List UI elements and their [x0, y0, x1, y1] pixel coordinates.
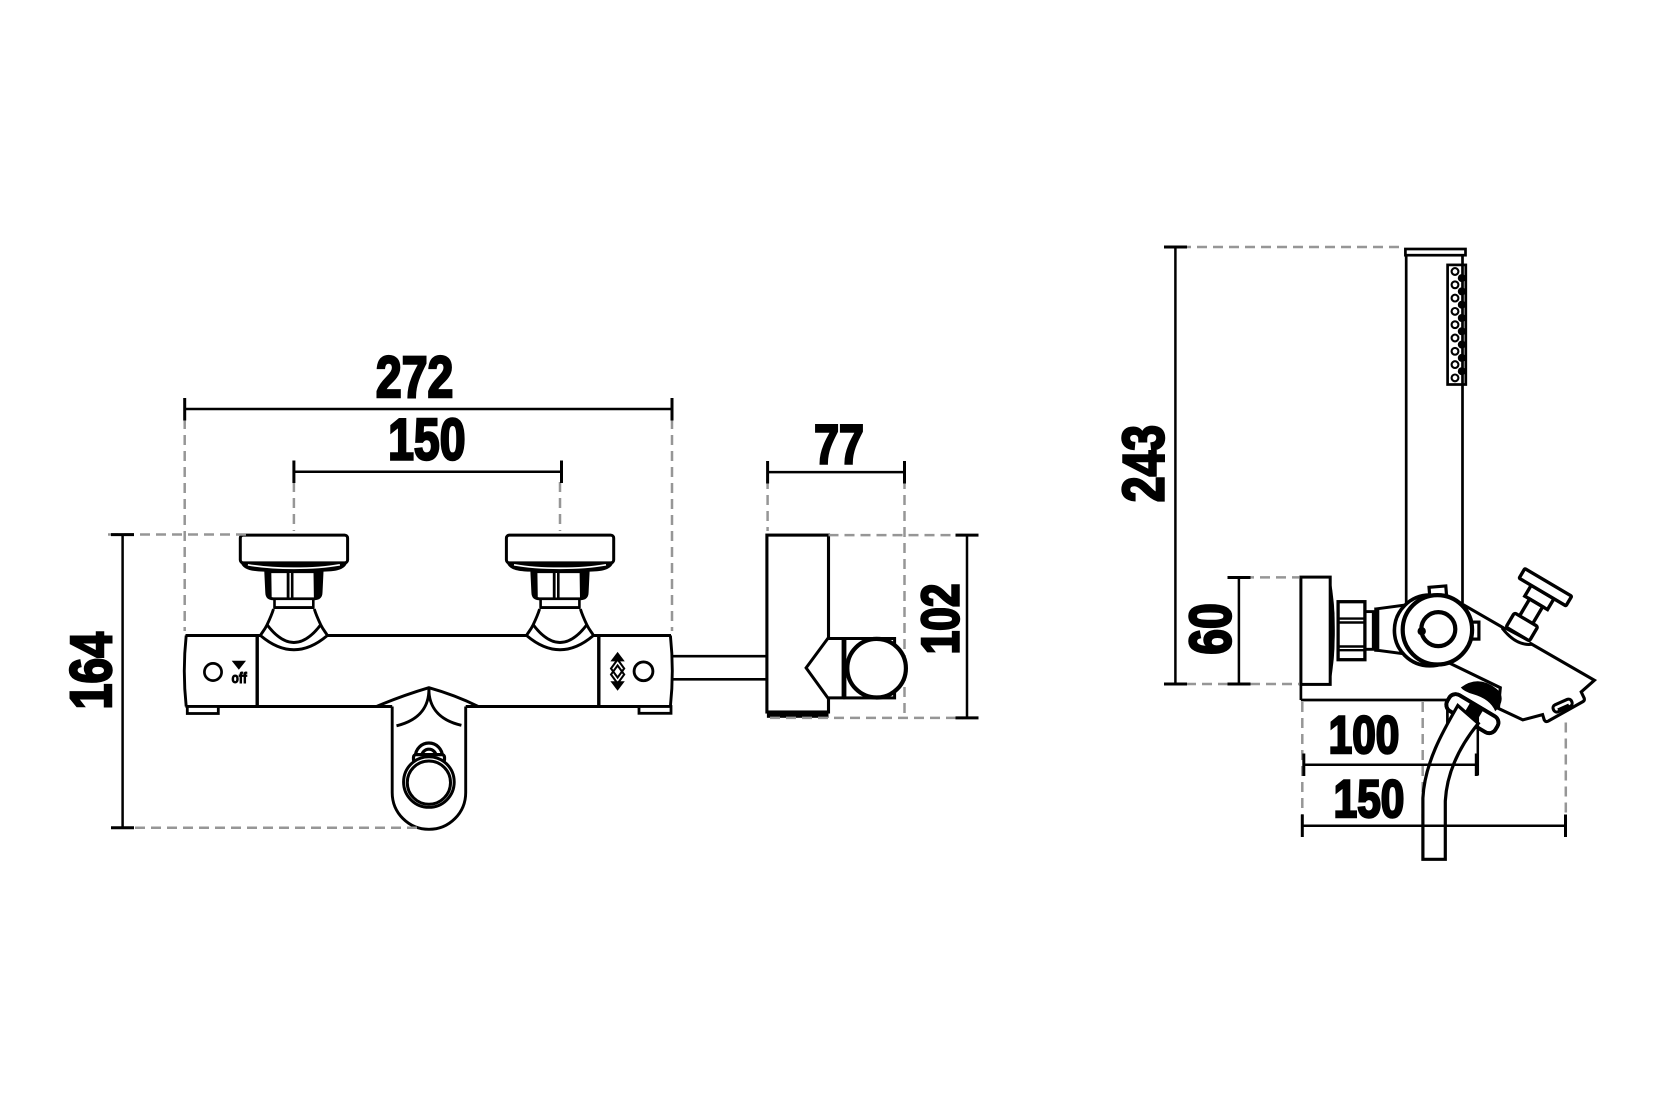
- bracket shelf outline: [1300, 684, 1303, 700]
- connecting pipe lines: [671, 655, 767, 658]
- side body rectangle: [767, 535, 829, 712]
- mixer housing body (tilted): [1446, 600, 1594, 722]
- diverter hoop: [415, 743, 442, 757]
- diverter knob outer: [404, 757, 455, 808]
- aerator slot on spout: [1552, 698, 1573, 713]
- body left end arc: [184, 636, 186, 707]
- thermostat rear rim: [1394, 595, 1465, 666]
- handle pentagon: [806, 639, 843, 698]
- body right end arc: [670, 636, 672, 707]
- svg-text:150: 150: [1334, 770, 1405, 829]
- thermostat top tab: [1429, 586, 1447, 599]
- right cap circle indicator: [634, 662, 653, 681]
- extension dashed spout tip: [1565, 723, 1568, 825]
- svg-text:100: 100: [1329, 707, 1400, 766]
- left cap separator: [256, 636, 259, 707]
- union nut at wall: [1338, 602, 1365, 660]
- connector spacer: [1365, 612, 1373, 650]
- body top edge segments: [186, 634, 261, 637]
- hidden extension dashed (hose end): [1421, 702, 1424, 818]
- body bottom edge segments: [186, 705, 393, 708]
- hose nut band: [1444, 691, 1502, 735]
- spout drape curves: [397, 688, 429, 726]
- dim 150 left: [294, 471, 562, 474]
- shower hose: [1423, 706, 1478, 860]
- svg-text:272: 272: [376, 345, 453, 410]
- dim 100: [1304, 763, 1477, 766]
- extension dashed vertical right (tangent to knob): [903, 479, 906, 716]
- extension dashed lines, right view: [1181, 247, 1404, 684]
- collar arc under volume handle: [1502, 628, 1533, 644]
- hand shower stick left side: [1405, 255, 1408, 606]
- right cap separator: [597, 636, 600, 707]
- svg-text:164: 164: [59, 632, 124, 709]
- extension dashed lines, front view: [108, 419, 963, 828]
- left cap circle indicator: [204, 663, 221, 680]
- svg-text:150: 150: [388, 408, 465, 473]
- spout tent top: [377, 688, 478, 707]
- thermostat right tab: [1468, 622, 1479, 639]
- off triangle: [232, 661, 246, 670]
- connector bar: [1374, 608, 1379, 652]
- svg-text:243: 243: [1112, 425, 1177, 502]
- left foot: [187, 707, 218, 714]
- handle bracket: [845, 639, 895, 698]
- extension line hose centre (solid): [1477, 714, 1480, 776]
- dim 60: [1238, 578, 1241, 685]
- dim 102: [966, 535, 969, 718]
- wall plate: [1301, 577, 1330, 684]
- nozzle dots filled column: [1458, 274, 1466, 375]
- dim 243: [1174, 247, 1177, 684]
- svg-text:102: 102: [912, 584, 971, 655]
- cap nub: [1418, 627, 1426, 635]
- thermostat cap: [1421, 612, 1455, 646]
- dim 77: [768, 471, 905, 474]
- svg-text:77: 77: [814, 413, 864, 476]
- extension dashed wall face: [1301, 702, 1304, 824]
- svg-text:60: 60: [1179, 603, 1244, 655]
- right foot: [639, 707, 671, 714]
- svg-text:off: off: [232, 670, 248, 687]
- nozzle dots outlined column: [1452, 268, 1459, 381]
- stick right side: [1461, 255, 1464, 603]
- temperature arrows icon: [610, 652, 624, 662]
- diverter knob inner: [407, 761, 450, 804]
- spout U body: [392, 707, 466, 830]
- nozzle plate: [1448, 265, 1466, 385]
- dim 164: [121, 535, 124, 828]
- left handle: [240, 535, 347, 650]
- wall plate rim (dark lens): [1330, 577, 1335, 684]
- connector cone to valve: [1378, 605, 1404, 654]
- hoop base band: [414, 755, 445, 763]
- volume cross handle: [1494, 569, 1571, 648]
- right handle: [506, 535, 613, 650]
- hose collar (black): [1461, 681, 1502, 711]
- dim 150 right: [1302, 824, 1565, 827]
- thermostat face: [1403, 595, 1472, 664]
- dim 272: [185, 408, 672, 411]
- side foot (filled): [767, 711, 829, 718]
- handle knob circle: [847, 639, 906, 698]
- stick top cap: [1405, 249, 1465, 255]
